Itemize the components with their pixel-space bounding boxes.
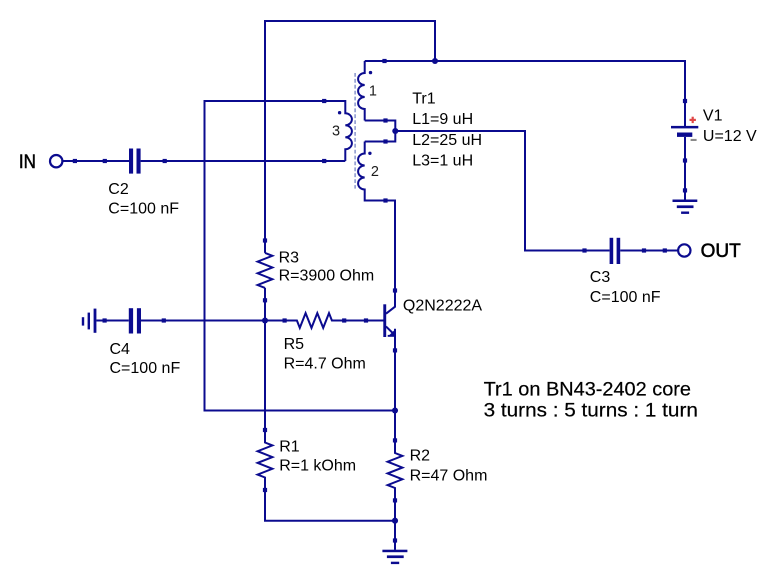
svg-text:R5: R5 [284,336,305,353]
svg-text:R=47 Ohm: R=47 Ohm [410,468,488,485]
svg-text:3: 3 [332,124,340,140]
svg-text:R=4.7 Ohm: R=4.7 Ohm [284,355,366,372]
svg-text:C3: C3 [590,269,611,286]
svg-text:L3=1 uH: L3=1 uH [412,153,473,170]
svg-text:Tr1: Tr1 [412,91,436,108]
svg-text:Tr1 on BN43-2402 core: Tr1 on BN43-2402 core [484,379,691,400]
svg-text:U=12 V: U=12 V [703,128,757,145]
svg-text:C=100 nF: C=100 nF [110,360,181,377]
svg-text:IN: IN [19,152,36,173]
svg-text:2: 2 [371,164,379,180]
svg-text:R2: R2 [410,447,431,464]
svg-text:R1: R1 [279,439,300,456]
svg-text:C2: C2 [108,181,129,198]
svg-text:R=1 kOhm: R=1 kOhm [279,458,356,475]
svg-text:OUT: OUT [701,241,742,262]
svg-text:Q2N2222A: Q2N2222A [403,298,482,315]
svg-text:1: 1 [369,84,377,100]
svg-text:C=100 nF: C=100 nF [108,200,179,217]
svg-text:V1: V1 [703,107,723,124]
svg-text:C=100 nF: C=100 nF [590,289,661,306]
svg-text:L2=25 uH: L2=25 uH [412,132,482,149]
svg-text:C4: C4 [110,341,131,358]
svg-text:3 turns : 5 turns : 1 turn: 3 turns : 5 turns : 1 turn [484,401,698,422]
svg-text:R3: R3 [279,249,300,266]
svg-text:R=3900 Ohm: R=3900 Ohm [279,268,375,285]
svg-text:L1=9 uH: L1=9 uH [412,111,473,128]
